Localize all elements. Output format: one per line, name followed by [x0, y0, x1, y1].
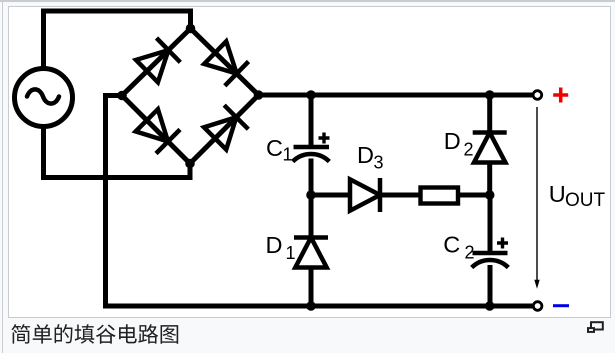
diode D3 symbol	[350, 178, 380, 212]
svg-text:1: 1	[283, 145, 293, 165]
bridge diode lower-left (cathode at bottom node)	[136, 109, 180, 153]
wire: D1 anode to bottom rail	[309, 267, 314, 306]
bridge arm LR	[190, 95, 259, 164]
wire: C1 bottom plate to middle node A	[309, 159, 314, 196]
wire: node B to C2 top plate	[488, 195, 493, 251]
output terminal - (open circle)	[533, 302, 542, 311]
svg-text:OUT: OUT	[565, 190, 606, 211]
svg-text:2: 2	[465, 243, 475, 263]
blue minus label at - terminal	[553, 304, 569, 307]
junction dot node 6	[485, 90, 495, 100]
svg-text:D: D	[357, 142, 374, 168]
svg-text:C: C	[443, 231, 460, 257]
C2 plus sign	[497, 238, 508, 249]
capacitor C2	[472, 253, 509, 268]
junction dot node 2	[117, 91, 127, 101]
resistor (box)	[421, 188, 459, 204]
junction dot node 8	[485, 190, 495, 200]
diode D2 symbol	[473, 133, 507, 163]
capacitor C1	[293, 147, 330, 162]
wire top loop: AC top to bridge top node	[44, 11, 191, 70]
junction dot node 4	[185, 159, 195, 169]
junction dot node 9	[306, 301, 316, 311]
wire: D3 cathode to resistor	[380, 193, 421, 198]
wire: node A to D1 cathode	[309, 195, 314, 237]
output terminal + (open circle)	[533, 91, 542, 100]
svg-text:2: 2	[464, 139, 474, 159]
AC source V1 circle	[15, 69, 73, 127]
wire: D2 anode to node B	[487, 162, 492, 195]
wire: top rail from bridge right node to + terminal	[259, 93, 534, 98]
svg-text:D: D	[266, 232, 283, 258]
C1 plus sign	[319, 133, 330, 144]
AC source sine symbol	[27, 89, 59, 103]
junction dot node 10	[485, 301, 495, 311]
svg-text:1: 1	[286, 243, 296, 263]
bridge diode upper-left (anode at left node)	[136, 38, 180, 82]
svg-text:C: C	[266, 135, 283, 161]
diode D1 symbol	[294, 238, 328, 268]
svg-text:U: U	[549, 181, 566, 207]
bridge arm UR	[191, 29, 259, 96]
outer top border	[0, 0, 615, 2]
wire: node A to D3 anode	[311, 193, 349, 198]
caption text 简单的填谷电路图	[11, 324, 178, 344]
red plus label at + terminal	[553, 88, 568, 103]
svg-text:D: D	[444, 128, 461, 154]
junction dot node 1	[186, 24, 196, 34]
wire bottom loop: AC bottom to bridge bottom node	[44, 125, 191, 178]
junction dot node 7	[306, 190, 316, 200]
bridge arm UL	[122, 29, 191, 96]
junction dot node 3	[254, 90, 264, 100]
bridge diode lower-right (cathode at right node)	[204, 105, 248, 149]
outer left border	[2, 0, 3, 353]
junction dot node 5	[306, 90, 316, 100]
bridge diode upper-right (cathode at right node)	[204, 41, 248, 85]
wire: top rail node to D2 cathode	[487, 95, 492, 133]
wire: resistor to node B	[460, 193, 490, 198]
wire: C2 bottom plate to bottom rail	[488, 265, 493, 306]
Uout arrow	[536, 107, 538, 280]
expand/enlarge icon bottom right	[588, 322, 603, 332]
svg-text:3: 3	[374, 153, 384, 173]
wire: bridge left node to bottom rail	[106, 96, 534, 307]
wire: top rail node to C1 top plate	[309, 95, 314, 145]
bridge arm LL	[122, 96, 190, 164]
